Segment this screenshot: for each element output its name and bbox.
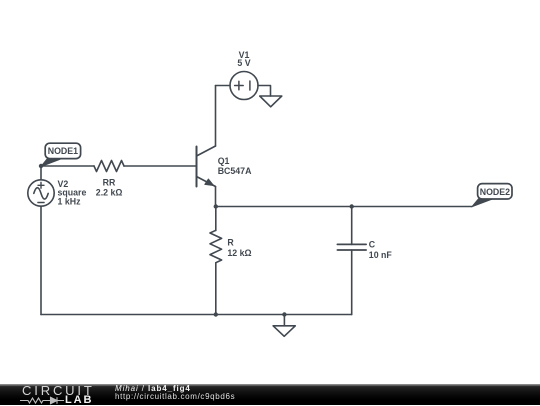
- wire collector up: [215, 86, 217, 147]
- node NODE2 label: [472, 184, 512, 207]
- footer url text: [115, 393, 235, 401]
- ground top: [260, 96, 282, 107]
- wire RR to base: [124, 165, 197, 167]
- wire R top lead: [215, 207, 217, 231]
- wire emitter down: [215, 187, 217, 207]
- wire V1 to ground: [258, 86, 271, 97]
- capacitor C: [337, 244, 366, 250]
- svg-text:12 kΩ: 12 kΩ: [227, 248, 251, 258]
- label Q1 BC547A: [218, 156, 252, 176]
- svg-text:BC547A: BC547A: [218, 166, 252, 176]
- wire R bottom lead: [215, 263, 217, 315]
- label V1 5V: [237, 50, 250, 68]
- wire capacitor bottom lead: [351, 250, 353, 315]
- wire V2 bottom lead: [40, 206, 42, 314]
- resistor RR: [94, 161, 124, 172]
- svg-text:NODE1: NODE1: [48, 146, 78, 156]
- svg-text:RR: RR: [103, 177, 116, 187]
- footer logo LAB: [65, 395, 93, 406]
- junction ground bottom: [282, 312, 286, 316]
- wire output horizontal: [216, 206, 472, 208]
- svg-text:R: R: [227, 237, 234, 247]
- wire capacitor top lead: [351, 207, 353, 245]
- transistor Q1: [197, 146, 216, 187]
- ground bottom: [273, 326, 295, 337]
- svg-text:2.2 kΩ: 2.2 kΩ: [96, 188, 123, 198]
- wire collector to V1: [216, 85, 231, 87]
- footer title text: [115, 385, 191, 393]
- wire ground stub: [283, 315, 285, 326]
- svg-text:10 nF: 10 nF: [369, 250, 393, 260]
- label V2 square 1 kHz: [58, 179, 87, 206]
- voltage source V1: [230, 72, 258, 100]
- wire bottom rail: [41, 314, 352, 316]
- junction node V2/RR: [39, 164, 43, 168]
- voltage source V2 (sine symbol): [28, 180, 54, 206]
- label C 10 nF: [369, 240, 393, 260]
- svg-text:NODE2: NODE2: [480, 187, 510, 197]
- svg-text:C: C: [369, 240, 376, 250]
- footer logo CIRCUIT: [22, 384, 95, 397]
- resistor R: [210, 230, 222, 262]
- svg-text:Q1: Q1: [218, 156, 230, 166]
- svg-text:1 kHz: 1 kHz: [58, 196, 82, 206]
- footer bar: [0, 384, 540, 405]
- label RR 2.2 kOhm: [96, 177, 123, 197]
- wire node1 to RR: [41, 165, 94, 167]
- wire V2 top lead: [40, 166, 42, 180]
- junction R bottom: [214, 312, 218, 316]
- junction emitter node: [214, 204, 218, 208]
- node NODE1 label: [41, 143, 81, 166]
- junction capacitor top: [350, 204, 354, 208]
- svg-text:5 V: 5 V: [237, 58, 250, 68]
- label R 12 kOhm: [227, 237, 251, 258]
